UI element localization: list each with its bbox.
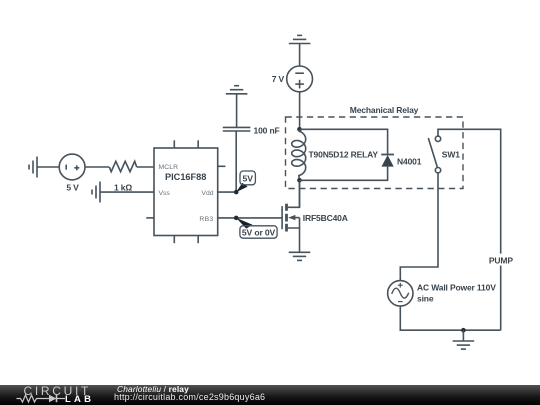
wire V1 to R1: [85, 166, 109, 168]
svg-text:Vss: Vss: [159, 190, 171, 197]
wire SW1 top to pump line: [438, 129, 501, 330]
svg-text:Vdd: Vdd: [201, 190, 213, 197]
junction dot ground rail: [461, 328, 466, 333]
wire coil top to diode: [300, 129, 388, 154]
svg-text:MCLR: MCLR: [159, 164, 179, 171]
MOSFET M1 source lead: [288, 218, 300, 228]
MOSFET M1 channel bar middle: [285, 214, 288, 222]
ground GND1 (left of V1, rotated left): [29, 157, 37, 178]
ground GND4 (below M1): [289, 252, 311, 260]
net flag 5V box: [240, 171, 255, 185]
pin stub right upper: [218, 165, 226, 167]
MOSFET M1 body lead: [295, 217, 300, 219]
logo resistor-diode glyph: [16, 393, 96, 404]
svg-text:5V or 0V: 5V or 0V: [242, 227, 276, 237]
wire source to GND4: [299, 228, 301, 252]
switch SW1 lever: [428, 138, 437, 167]
wire dot to GND6: [462, 330, 464, 341]
pin stub bottom 2: [197, 236, 199, 244]
wire GND1 to V1: [37, 166, 59, 168]
ground GND5 (above V2, flipped up): [289, 35, 311, 43]
net label PUMP background: [486, 254, 516, 266]
wire GND2 to Vss pin: [100, 191, 154, 193]
switch SW1 terminal bottom: [435, 168, 440, 173]
ground GND2 (at Vss, rotated left): [92, 182, 100, 203]
MOSFET M1 body arrow: [288, 215, 295, 220]
pin stub top 1: [173, 140, 175, 148]
resistor R1 1 kOhm: [109, 161, 136, 171]
wire C1 to GND3: [236, 94, 238, 128]
svg-text:Mechanical Relay: Mechanical Relay: [350, 105, 419, 115]
svg-text:5 V: 5 V: [66, 183, 79, 193]
net flag 5V-or-0V box: [240, 226, 277, 238]
wire GND5 to V2: [299, 44, 301, 67]
svg-text:N4001: N4001: [397, 156, 422, 166]
net flag 5V-or-0V pointer: [236, 218, 252, 229]
svg-text:AC Wall Power 110V: AC Wall Power 110V: [417, 282, 496, 292]
wire V2 to relay coil node: [299, 92, 301, 130]
footer url line: [114, 393, 265, 402]
MOSFET M1 channel bar bottom: [285, 224, 288, 232]
svg-text:1 kΩ: 1 kΩ: [114, 183, 132, 193]
footer bar: [0, 385, 540, 405]
pin stub left lower: [146, 217, 154, 219]
net flag 5V pointer: [236, 183, 247, 192]
pin stub bottom 1: [173, 236, 175, 244]
MOSFET M1 channel bar top: [285, 204, 288, 211]
MOSFET M1 drain lead: [288, 180, 300, 207]
svg-text:100 nF: 100 nF: [254, 126, 280, 136]
wire RB3 pin to gate: [218, 217, 282, 219]
svg-text:PIC16F88: PIC16F88: [165, 172, 206, 182]
junction dot coil top: [297, 127, 302, 132]
wire SW1 bottom to AC source: [400, 173, 438, 281]
junction dot Vdd node: [234, 190, 239, 195]
logo wordmark LAB: [65, 395, 94, 405]
svg-text:IRF5BC40A: IRF5BC40A: [303, 213, 348, 223]
junction dot coil bottom: [297, 178, 302, 183]
junction dot RB3 node: [234, 216, 239, 221]
ground GND6 (bottom right): [453, 341, 475, 349]
wire diode to coil bottom: [300, 167, 388, 181]
wire Vdd pin to node: [218, 191, 237, 193]
MOSFET M1 gate plate: [281, 206, 283, 229]
svg-text:T90N5D12 RELAY: T90N5D12 RELAY: [309, 150, 379, 160]
switch SW1 terminal top: [435, 136, 440, 141]
diode D1 cathode bar: [381, 154, 394, 156]
diode D1 triangle: [382, 155, 394, 167]
svg-text:sine: sine: [417, 293, 434, 303]
wire AC bottom to ground rail: [400, 306, 500, 330]
svg-text:7 V: 7 V: [272, 74, 285, 84]
svg-text:RB3: RB3: [199, 216, 213, 223]
relay enclosure dashed box: [286, 117, 464, 189]
svg-text:PUMP: PUMP: [489, 255, 513, 265]
wire coil ends: [299, 129, 301, 131]
inductor L1 relay coil: [292, 131, 306, 175]
CircuitLab logo wordmark CIRCUIT: [24, 385, 92, 397]
capacitor C1 100nF: [223, 127, 251, 131]
footer title line: [117, 385, 189, 393]
wire coil bottom to M1 drain (crosses box): [299, 180, 301, 207]
svg-text:5V: 5V: [242, 174, 253, 184]
wire R1 to MCLR pin: [137, 166, 154, 168]
ground GND3 (above C1, flipped up): [226, 86, 248, 94]
wire node up to C1: [235, 131, 237, 192]
voltage source V2 7V: [287, 66, 313, 92]
IC U1 PIC16F88 body: [154, 148, 218, 236]
voltage source V1 5V: [59, 154, 85, 180]
svg-text:SW1: SW1: [442, 150, 460, 160]
AC source V3: [388, 281, 413, 306]
pin stub top 2: [197, 140, 199, 148]
